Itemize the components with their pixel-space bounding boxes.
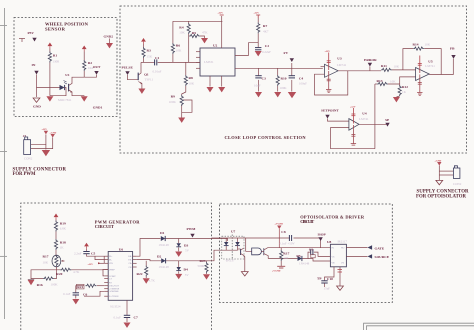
svg-text:CB: CB xyxy=(128,267,132,269)
svg-text:0.1uF +50V: 0.1uF +50V xyxy=(279,241,295,245)
svg-text:SENSOR: SENSOR xyxy=(45,26,66,31)
svg-text:+12V: +12V xyxy=(42,128,48,131)
svg-text:1N4148: 1N4148 xyxy=(159,243,170,247)
svg-text:R22: R22 xyxy=(137,272,143,276)
svg-text:+12V: +12V xyxy=(88,263,94,266)
svg-text:6N137: 6N137 xyxy=(226,259,235,263)
svg-text:1N4148: 1N4148 xyxy=(159,265,170,269)
svg-text:U8: U8 xyxy=(327,240,332,244)
svg-text:100uF: 100uF xyxy=(299,82,307,86)
svg-text:R12: R12 xyxy=(402,85,408,89)
svg-text:VIN: VIN xyxy=(109,263,113,265)
svg-text:15uF: 15uF xyxy=(324,287,331,291)
svg-text:D2: D2 xyxy=(157,255,162,259)
svg-text:CA: CA xyxy=(128,262,132,265)
svg-text:GND: GND xyxy=(33,105,41,109)
svg-text:U5: U5 xyxy=(428,60,433,64)
svg-text:10K: 10K xyxy=(394,65,400,69)
svg-text:4.7K: 4.7K xyxy=(149,279,156,283)
svg-text:100K: 100K xyxy=(169,100,177,104)
svg-text:R14: R14 xyxy=(413,43,419,47)
svg-text:PULSE: PULSE xyxy=(122,65,134,69)
svg-text:+12V: +12V xyxy=(325,50,331,53)
svg-text:R8: R8 xyxy=(189,76,194,80)
svg-text:C7: C7 xyxy=(134,316,139,320)
svg-text:GATE: GATE xyxy=(375,246,385,250)
svg-text:130R: 130R xyxy=(52,59,60,63)
svg-text:CIRCUIT: CIRCUIT xyxy=(95,224,114,229)
svg-text:C1: C1 xyxy=(155,56,160,60)
svg-text:0.1uF: 0.1uF xyxy=(63,292,71,296)
svg-text:47K: 47K xyxy=(202,31,208,35)
svg-text:FOR PWM: FOR PWM xyxy=(13,172,36,177)
svg-text:10K: 10K xyxy=(425,43,431,47)
svg-text:100K: 100K xyxy=(51,283,59,287)
svg-text:R7: R7 xyxy=(263,24,268,28)
svg-text:R4: R4 xyxy=(179,26,184,30)
svg-text:R2: R2 xyxy=(88,61,93,65)
svg-text:4.7K: 4.7K xyxy=(73,270,80,274)
svg-text:1N4148: 1N4148 xyxy=(299,262,310,266)
svg-text:10uF: 10uF xyxy=(254,84,261,88)
svg-text:MOC7811: MOC7811 xyxy=(58,98,72,102)
svg-text:Q1: Q1 xyxy=(144,73,149,77)
svg-text:C4: C4 xyxy=(299,77,304,81)
svg-text:100K: 100K xyxy=(280,86,288,90)
svg-text:IN: IN xyxy=(32,63,36,67)
svg-text:+12V: +12V xyxy=(350,106,356,109)
svg-text:D4: D4 xyxy=(184,268,189,272)
svg-text:ISOP: ISOP xyxy=(318,232,327,236)
svg-text:D3: D3 xyxy=(184,244,189,248)
svg-text:IR2117: IR2117 xyxy=(338,240,348,244)
svg-text:CON2: CON2 xyxy=(453,182,462,186)
svg-text:C8: C8 xyxy=(281,230,286,234)
svg-text:10K: 10K xyxy=(43,261,49,265)
svg-text:R18: R18 xyxy=(60,241,66,245)
svg-text:SETPOINT: SETPOINT xyxy=(321,108,339,112)
svg-text:R10: R10 xyxy=(281,77,287,81)
svg-text:SG3524: SG3524 xyxy=(110,305,121,309)
svg-text:GND1: GND1 xyxy=(93,105,103,109)
svg-text:OUT: OUT xyxy=(93,65,101,69)
svg-text:+GND: +GND xyxy=(50,131,57,134)
svg-text:U2: U2 xyxy=(213,44,218,48)
svg-text:R16: R16 xyxy=(37,283,43,287)
svg-text:C10: C10 xyxy=(327,277,333,281)
svg-text:CLOSE LOOP CONTROL SECTION: CLOSE LOOP CONTROL SECTION xyxy=(225,135,307,140)
svg-text:U6: U6 xyxy=(119,248,124,252)
svg-text:D5: D5 xyxy=(296,254,301,258)
svg-text:1K: 1K xyxy=(60,246,65,250)
svg-text:SOURCE: SOURCE xyxy=(375,255,390,259)
svg-text:R23: R23 xyxy=(200,259,206,263)
svg-text:10K: 10K xyxy=(179,30,185,34)
svg-text:U3: U3 xyxy=(337,57,342,61)
svg-text:D1: D1 xyxy=(160,231,165,235)
svg-text:15K: 15K xyxy=(147,55,153,59)
svg-text:FV: FV xyxy=(284,51,289,55)
svg-text:LM741: LM741 xyxy=(337,63,347,67)
svg-text:500R: 500R xyxy=(198,264,206,268)
svg-text:FB: FB xyxy=(450,47,455,51)
svg-text:R1: R1 xyxy=(53,53,58,57)
svg-text:S+TDWN: S+TDWN xyxy=(109,296,119,298)
svg-text:4K7: 4K7 xyxy=(263,30,269,34)
svg-text:GND2: GND2 xyxy=(104,35,114,39)
svg-text:C9: C9 xyxy=(309,248,314,252)
svg-text:IN-: IN- xyxy=(109,260,112,262)
svg-text:OSC/OUT: OSC/OUT xyxy=(109,286,120,288)
svg-text:LM741: LM741 xyxy=(359,117,369,121)
svg-text:FOR OPTOISOLATOR: FOR OPTOISOLATOR xyxy=(416,194,467,199)
svg-text:+12V: +12V xyxy=(254,12,260,15)
svg-text:0.22uF: 0.22uF xyxy=(262,50,271,54)
svg-text:2.2nF: 2.2nF xyxy=(74,252,82,256)
svg-text:VREF: VREF xyxy=(109,269,115,271)
svg-text:LM331: LM331 xyxy=(204,60,214,64)
svg-text:PWM: PWM xyxy=(187,227,197,231)
svg-text:ERROR: ERROR xyxy=(364,58,377,62)
svg-text:10K: 10K xyxy=(189,82,195,86)
svg-text:C2: C2 xyxy=(265,44,270,48)
svg-text:R11: R11 xyxy=(381,64,387,68)
svg-text:+VGND: +VGND xyxy=(275,223,284,226)
svg-text:P5V: P5V xyxy=(28,31,35,35)
svg-text:U1: U1 xyxy=(65,73,70,77)
svg-text:R5: R5 xyxy=(192,31,197,35)
svg-text:LM741: LM741 xyxy=(425,64,435,68)
svg-text:5V: 5V xyxy=(185,249,190,253)
svg-text:C6: C6 xyxy=(83,293,88,297)
svg-text:C3: C3 xyxy=(262,77,267,81)
svg-text:R13: R13 xyxy=(377,79,383,83)
svg-text:CON2: CON2 xyxy=(24,157,33,161)
svg-text:HO: HO xyxy=(341,248,345,250)
svg-text:10E: 10E xyxy=(283,256,288,260)
svg-text:R21: R21 xyxy=(77,285,83,289)
svg-text:CIRCUIT: CIRCUIT xyxy=(300,219,314,224)
svg-text:R19: R19 xyxy=(60,222,66,226)
svg-text:10K: 10K xyxy=(390,80,396,84)
svg-text:6.8K: 6.8K xyxy=(60,227,67,231)
svg-text:0.01uF: 0.01uF xyxy=(153,70,162,74)
svg-text:U7: U7 xyxy=(231,229,236,233)
svg-text:TSP11: TSP11 xyxy=(145,78,154,82)
svg-text:R20: R20 xyxy=(56,272,62,276)
svg-text:R3: R3 xyxy=(147,49,152,53)
svg-text:10K: 10K xyxy=(176,49,182,53)
svg-text:0.1uF: 0.1uF xyxy=(114,316,122,320)
svg-text:-VSENSE: -VSENSE xyxy=(109,291,119,293)
svg-text:R6: R6 xyxy=(176,44,181,48)
svg-text:R9: R9 xyxy=(171,94,176,98)
svg-text:R17: R17 xyxy=(43,255,49,259)
svg-text:U4: U4 xyxy=(362,112,367,116)
svg-text:5V: 5V xyxy=(185,273,190,277)
svg-text:C5: C5 xyxy=(91,252,96,256)
svg-text:1K: 1K xyxy=(402,90,407,94)
svg-text:+12V: +12V xyxy=(218,12,224,15)
svg-text:+VGND: +VGND xyxy=(272,270,281,273)
